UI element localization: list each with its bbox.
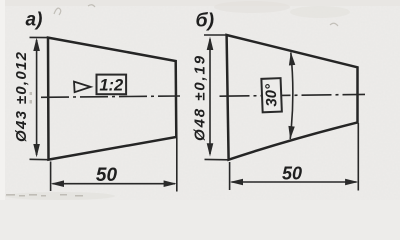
centerline b [220,94,366,96]
dim line D43 vertical [33,38,40,158]
angle arc 30 [288,52,295,139]
dim line 50 b [230,179,358,186]
ext line 50-right a [176,138,178,192]
ext line 50-left b [229,162,231,190]
ext line bottom-left a [30,158,49,160]
svg-text:1:2: 1:2 [99,77,123,95]
centerline a [41,96,180,97]
cone outline a [48,38,176,160]
faint scan marks [54,5,338,26]
taper symbol triangle [74,82,91,93]
cone outline b [227,35,358,160]
svg-text:Ø48 ±0,19: Ø48 ±0,19 [192,54,209,141]
ext line 50-right b [357,123,359,191]
angle box 30 [261,78,281,112]
ext line 50-left a [50,162,52,192]
svg-text:50: 50 [96,165,118,186]
svg-text:а): а) [26,10,43,31]
ext line top-left a [30,36,49,38]
svg-text:30°: 30° [263,83,281,107]
svg-text:Ø43 ±0,012: Ø43 ±0,012 [13,51,30,142]
ext line top-left b [204,34,227,36]
taper box 1:2 [97,75,127,95]
ext line bottom-left b [205,158,229,160]
svg-text:50: 50 [282,164,302,184]
dim line D48 vertical [207,37,214,157]
dim line 50 a [51,180,177,187]
svg-text:б): б) [196,10,215,32]
